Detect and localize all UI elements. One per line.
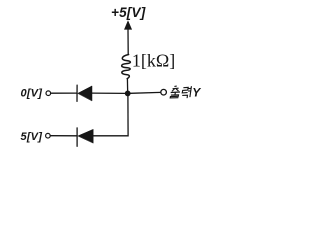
wire junction to output terminal (130, 91, 161, 94)
wire resistor to junction (126, 79, 128, 94)
wire input A to diode D1 (51, 92, 77, 94)
wire diode D1 to junction (92, 92, 125, 94)
diode D2 triangle (78, 129, 93, 143)
wire input B to diode D2 (50, 135, 77, 137)
output label 출 (hangul chul) (170, 86, 181, 98)
resistor R 1kΩ (122, 55, 131, 79)
input A label 0[V] (21, 87, 43, 99)
junction node dot (125, 91, 131, 97)
resistor value 1[kΩ] (132, 50, 175, 70)
input B label 5[V] (21, 131, 43, 143)
wire junction down and left to diode D2 (93, 96, 128, 136)
diode D1 cathode bar (76, 85, 78, 101)
output label Y (192, 86, 201, 100)
output label 력 (hangul ryeok) (182, 86, 192, 98)
power arrow up (125, 21, 132, 29)
svg-text:Y: Y (192, 86, 201, 100)
wire arrow to resistor (127, 29, 129, 55)
svg-text:0[V]: 0[V] (21, 87, 43, 99)
svg-text:5[V]: 5[V] (21, 131, 43, 143)
svg-text:1[kΩ]: 1[kΩ] (132, 50, 175, 70)
input B terminal (46, 133, 51, 138)
output terminal (161, 89, 167, 95)
svg-text:+5[V]: +5[V] (111, 5, 146, 20)
input A terminal (46, 91, 51, 96)
diode D2 cathode bar (76, 128, 78, 146)
node +5V supply label (111, 5, 146, 20)
diode D1 triangle (78, 86, 92, 101)
